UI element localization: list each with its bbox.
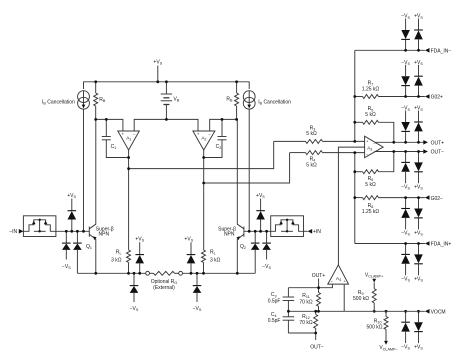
- +VS supply label at OUT-: [414, 185, 423, 191]
- clamp diode to +VS at VOCM: [414, 311, 423, 343]
- junction dots feedback column: [353, 95, 356, 199]
- pin OUT-: [423, 149, 444, 156]
- resistor RB right: [226, 82, 238, 120]
- pin +IN: [304, 229, 322, 235]
- clamp diode to +VS at FDA_IN+: [414, 244, 423, 276]
- junction dots input-stage rows: [94, 118, 238, 121]
- diode left emitter node to +VS: [135, 237, 144, 274]
- wire A2 output to R4: [204, 153, 290, 183]
- +VS supply label at G02+: [414, 60, 423, 66]
- pin row FDA_IN+: [355, 241, 452, 248]
- clamp diode to +VS at FDA_IN-: [414, 19, 423, 51]
- junction dots OUT- row: [392, 150, 420, 153]
- pin OUT+: [423, 140, 444, 147]
- pin -IN: [9, 229, 23, 235]
- junction dots A1/A2 output rows: [127, 167, 205, 184]
- -VS supply label at FDA_IN-: [401, 14, 410, 20]
- capacitor C2: [204, 119, 227, 157]
- diode -IN node to +VS: [67, 193, 76, 232]
- op-amp A2: [193, 131, 215, 150]
- wire left emitter node row: [77, 272, 145, 274]
- wire A1 output down: [128, 150, 130, 169]
- junction dots OUT+ row: [392, 141, 420, 144]
- wire A2 output down: [203, 150, 205, 183]
- svg-text:500 kΩ: 500 kΩ: [367, 325, 383, 331]
- +VS supply label at FDA_IN+: [414, 277, 423, 283]
- diode -IN node to emitter node: [73, 231, 82, 273]
- diode right emitter node to +VS: [184, 237, 195, 274]
- svg-text:VOCM: VOCM: [431, 310, 446, 316]
- +VS supply label at VOCM: [414, 344, 423, 350]
- diode +IN node to -VS: [262, 231, 271, 259]
- junction dots -IN node: [65, 230, 85, 233]
- wire A3 out- row: [375, 151, 423, 153]
- label Super-beta NPN left: [96, 226, 114, 237]
- svg-text:G02−: G02−: [431, 196, 443, 202]
- clamp input V_CLAMP+ with resistor R9 500k: [353, 273, 383, 312]
- label IB Cancellation left: [42, 100, 75, 106]
- label Q1: [86, 244, 92, 250]
- svg-text:NPN: NPN: [224, 232, 235, 238]
- input protection network box (-IN): [23, 216, 56, 237]
- svg-text:IB Cancellation: IB Cancellation: [258, 100, 291, 106]
- junction dots left emitter node: [94, 272, 141, 275]
- resistor R3 5k: [274, 125, 365, 143]
- svg-text:70 kΩ: 70 kΩ: [299, 320, 312, 326]
- resistor R11 70k: [299, 288, 320, 312]
- wire left input-stage row (RB to A1 +in): [96, 119, 123, 131]
- op-amp A3 fully-differential: [365, 136, 384, 158]
- diode left emitter node to -VS: [130, 273, 139, 302]
- pin VOCM row: [344, 309, 445, 316]
- wire FDA_IN+ feedback column: [354, 153, 356, 244]
- label OUT+ sense: [312, 273, 326, 279]
- wire left current source to -IN node: [83, 109, 85, 231]
- -VS supply label at G02-: [401, 231, 410, 237]
- svg-text:FDA_IN+: FDA_IN+: [431, 242, 452, 248]
- diode +IN node to emitter node: [251, 231, 260, 273]
- capacitor C4 0.5pF: [268, 311, 294, 333]
- clamp diode to +VS at OUT-: [414, 152, 423, 184]
- junction dots FDA_IN- row: [404, 49, 420, 52]
- wire right current source to +IN node: [248, 109, 250, 231]
- resistor R6 5k: [355, 152, 394, 188]
- clamp diode to -VS at VOCM: [401, 311, 410, 343]
- capacitor C3 0.5pF: [268, 288, 294, 312]
- label -VS below left emitter diode: [130, 306, 139, 312]
- junction dots FDA_IN+ row: [404, 242, 420, 245]
- wire A4 +in to VOCM row: [343, 284, 345, 311]
- input protection network box (+IN): [271, 216, 304, 237]
- svg-text:FDA_IN−: FDA_IN−: [431, 49, 452, 55]
- label -VS below +IN diode: [262, 264, 271, 270]
- clamp diode to +VS at OUT+: [414, 111, 423, 143]
- -VS supply label at OUT-: [401, 185, 410, 191]
- label IB Cancellation right: [258, 100, 291, 106]
- svg-text:IB Cancellation: IB Cancellation: [42, 100, 75, 106]
- pin G02+: [425, 94, 443, 101]
- resistor RL left 3k: [111, 169, 130, 274]
- svg-text:1.25 kΩ: 1.25 kΩ: [362, 209, 380, 215]
- resistor R12 70k: [299, 311, 317, 333]
- svg-text:+IN: +IN: [313, 229, 321, 235]
- -VS supply label at G02+: [401, 60, 410, 66]
- wire A1 output to R3: [129, 141, 274, 168]
- wire top supply rail: [84, 82, 250, 89]
- clamp diode to -VS at G02+: [401, 65, 410, 97]
- pin row FDA_IN-: [355, 48, 452, 55]
- svg-text:5 kΩ: 5 kΩ: [306, 131, 317, 137]
- junction dots +IN node: [248, 230, 268, 233]
- resistor R7 1.25k: [355, 80, 425, 98]
- svg-text:−IN: −IN: [9, 229, 17, 235]
- svg-text:500 kΩ: 500 kΩ: [353, 296, 369, 302]
- +VS supply label at G02-: [414, 231, 423, 237]
- junction dots VOCM row: [373, 310, 420, 313]
- label -VS below -IN diode: [62, 264, 71, 270]
- clamp diode to -VS at FDA_IN+: [401, 244, 410, 276]
- junction dots feedback caps: [127, 156, 205, 159]
- clamp diode to -VS at G02-: [401, 198, 410, 230]
- wire bottom sense row: [288, 333, 315, 340]
- svg-text:0.5pF: 0.5pF: [268, 298, 281, 304]
- current source IB cancellation left: [78, 91, 90, 109]
- svg-text:OUT−: OUT−: [310, 345, 324, 351]
- resistor R4 5k: [290, 151, 365, 169]
- -VS supply label at VOCM: [401, 344, 410, 350]
- junction dots top rail: [94, 80, 238, 83]
- clamp diode to -VS at FDA_IN-: [401, 19, 410, 51]
- svg-text:(External): (External): [153, 285, 175, 291]
- svg-text:5 kΩ: 5 kΩ: [306, 162, 317, 168]
- svg-text:3 kΩ: 3 kΩ: [111, 258, 122, 264]
- transistor Q2 super-beta NPN: [237, 119, 244, 273]
- wire A3 out+ row: [375, 141, 423, 143]
- clamp diode to -VS at OUT-: [401, 152, 410, 184]
- pin G02-: [425, 195, 443, 202]
- diode right emitter node to -VS: [193, 273, 202, 302]
- transistor Q1 super-beta NPN: [89, 119, 96, 273]
- op-amp A1: [118, 131, 140, 150]
- label Super-beta NPN right: [218, 226, 236, 237]
- diode +IN node to +VS: [256, 193, 265, 232]
- label Q2: [240, 244, 246, 250]
- svg-text:OUT+: OUT+: [431, 141, 445, 147]
- wire +IN node to Q2 base: [244, 230, 271, 232]
- svg-text:0.5pF: 0.5pF: [268, 318, 281, 324]
- junction dots sense network: [287, 286, 320, 334]
- wire battery row (A1 -in to A2 +in): [134, 119, 198, 131]
- +VS supply label at OUT+: [414, 106, 423, 112]
- svg-text:5 kΩ: 5 kΩ: [365, 112, 376, 118]
- wire right emitter node row: [183, 272, 256, 274]
- wire A4 -in to sense node: [288, 284, 332, 288]
- clamp input V_CLAMP- with resistor R10 500k: [367, 311, 398, 351]
- resistor RB left: [94, 82, 106, 120]
- wire right input-stage row (A2 -in to RB): [210, 119, 237, 131]
- junction dots G02- row: [404, 196, 420, 199]
- external RG terminal left: [146, 271, 150, 275]
- label Optional RG (External): [151, 279, 178, 291]
- svg-text:G02+: G02+: [431, 95, 443, 101]
- wire FDA_IN- feedback column: [354, 50, 356, 141]
- label OUT- sense: [310, 345, 324, 351]
- wire mid node row to A4 +in / VOCM: [288, 310, 344, 312]
- wire A4 output to A3 vocm: [338, 147, 364, 265]
- diode -IN node to -VS: [62, 231, 71, 259]
- svg-text:OUT−: OUT−: [431, 150, 445, 156]
- clamp diode to +VS at G02-: [414, 198, 423, 230]
- svg-text:OUT+: OUT+: [312, 273, 326, 279]
- resistor RL right 3k: [202, 183, 221, 273]
- current source IB cancellation right: [243, 91, 255, 109]
- svg-text:3 kΩ: 3 kΩ: [210, 258, 221, 264]
- external RG terminal right: [179, 271, 183, 275]
- capacitor C1: [102, 119, 129, 157]
- junction dots right emitter node: [190, 272, 239, 275]
- svg-text:70 kΩ: 70 kΩ: [299, 299, 312, 305]
- svg-text:NPN: NPN: [99, 232, 110, 238]
- svg-text:1.25 kΩ: 1.25 kΩ: [362, 86, 380, 92]
- svg-text:5 kΩ: 5 kΩ: [365, 182, 376, 188]
- -VS supply label at OUT+: [401, 106, 410, 112]
- resistor R8 1.25k: [355, 196, 425, 215]
- resistor RG optional external: [150, 271, 179, 275]
- clamp diode to +VS at G02+: [414, 65, 423, 97]
- battery VB: [161, 82, 180, 120]
- junction dots G02+ row: [404, 95, 420, 98]
- clamp diode to -VS at OUT+: [401, 111, 410, 143]
- label -VS below right emitter diode: [193, 306, 202, 312]
- +VS supply label at FDA_IN-: [414, 14, 423, 20]
- -VS supply label at FDA_IN+: [401, 277, 410, 283]
- wire -IN node to Q1 base: [56, 230, 89, 232]
- op-amp A4: [328, 265, 349, 284]
- resistor R5 5k: [355, 106, 394, 142]
- node +VS top supply: [153, 60, 162, 82]
- wire OUT+ sense stub: [318, 279, 320, 288]
